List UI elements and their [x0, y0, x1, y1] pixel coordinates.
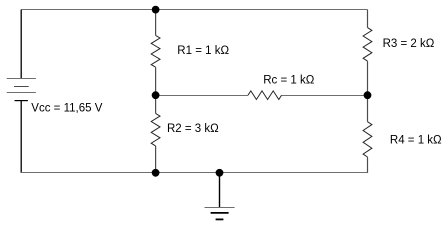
svg-text:R1 = 1 kΩ: R1 = 1 kΩ — [177, 45, 229, 57]
node middle right (junction R3/R4/Rc) — [364, 91, 372, 99]
battery Vcc plate long top — [7, 78, 36, 80]
wire top rail — [21, 9, 367, 11]
ground bar long — [205, 207, 235, 209]
resistor R1 — [151, 35, 160, 67]
wire middle horizontal right of Rc — [282, 95, 368, 97]
battery Vcc plate short bottom — [15, 100, 28, 102]
node middle left (junction R1/R2/Rc) — [152, 91, 160, 99]
resistor R2 — [151, 113, 160, 145]
ground stem wire — [219, 173, 221, 207]
wire left vertical upper (battery top lead) — [20, 10, 22, 79]
svg-text:R2 = 3 kΩ: R2 = 3 kΩ — [167, 123, 219, 135]
wire left vertical lower (battery bottom lead) — [20, 101, 22, 173]
resistor R4 — [363, 122, 372, 157]
battery Vcc plate short upper — [14, 86, 29, 88]
wire right branch between R3 and R4 — [367, 61, 369, 122]
wire middle branch lower — [155, 146, 157, 173]
node ground (ground stem to bottom rail) — [216, 169, 224, 177]
wire middle branch upper — [155, 10, 157, 36]
resistor Rc — [248, 91, 282, 100]
wire right branch upper — [367, 10, 369, 28]
svg-text:R4 = 1 kΩ: R4 = 1 kΩ — [390, 134, 442, 146]
resistor R3 — [363, 28, 372, 62]
wire right branch lower — [367, 157, 369, 173]
node top (junction of top rail and middle branch) — [152, 6, 160, 14]
wire bottom rail — [21, 172, 367, 174]
battery Vcc plate long lower — [7, 92, 36, 94]
ground bar middle — [211, 212, 229, 214]
wire middle branch between R1 and R2 — [155, 67, 157, 113]
svg-text:R3 = 2 kΩ: R3 = 2 kΩ — [383, 38, 435, 50]
wire middle horizontal left of Rc — [156, 95, 248, 97]
svg-text:Rc = 1 kΩ: Rc = 1 kΩ — [263, 75, 315, 87]
node bottom left (middle branch to bottom rail) — [152, 169, 160, 177]
svg-text:Vcc = 11,65 V: Vcc = 11,65 V — [31, 103, 102, 115]
ground bar short — [216, 218, 224, 220]
